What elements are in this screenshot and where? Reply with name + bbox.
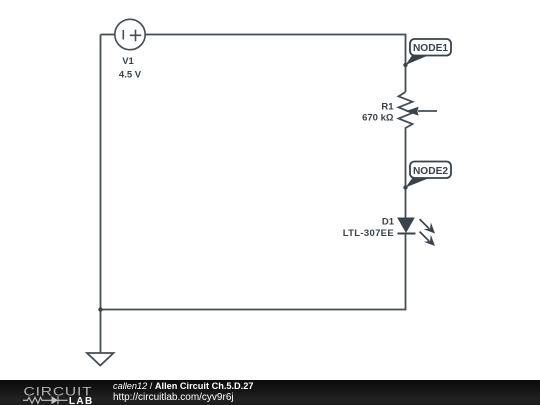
- svg-text:LAB: LAB: [69, 396, 94, 405]
- svg-text:R1: R1: [381, 102, 394, 113]
- svg-text:V1: V1: [122, 56, 134, 67]
- svg-text:4.5 V: 4.5 V: [119, 69, 142, 80]
- svg-text:D1: D1: [382, 217, 395, 228]
- svg-text:NODE1: NODE1: [413, 43, 448, 54]
- svg-text:670 kΩ: 670 kΩ: [362, 113, 394, 124]
- svg-text:NODE2: NODE2: [413, 166, 448, 177]
- svg-text:LTL-307EE: LTL-307EE: [343, 228, 394, 239]
